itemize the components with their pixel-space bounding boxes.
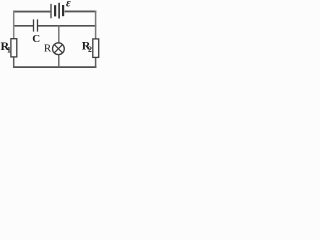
svg-text:ε: ε: [66, 0, 71, 10]
svg-text:2: 2: [88, 45, 92, 54]
svg-text:1: 1: [7, 46, 11, 55]
svg-text:C: C: [32, 33, 40, 45]
svg-text:R: R: [44, 42, 52, 54]
